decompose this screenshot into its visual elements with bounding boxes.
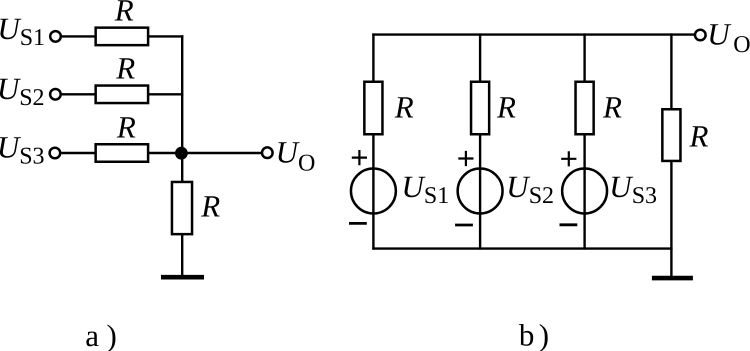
minus US3 bbox=[560, 223, 578, 226]
terminal US1 bbox=[50, 31, 61, 42]
wire R2 to bus bbox=[149, 93, 184, 95]
svg-text:): ) bbox=[539, 318, 549, 351]
svg-text:): ) bbox=[107, 318, 117, 351]
svg-text:UO: UO bbox=[707, 16, 750, 58]
wire shunt R to ground bbox=[181, 235, 183, 276]
terminal US3 bbox=[50, 148, 61, 159]
terminal US2 bbox=[50, 89, 61, 100]
terminal UO (a) bbox=[262, 147, 273, 158]
source US3 bbox=[562, 169, 607, 214]
wire R1 to bus bbox=[149, 35, 184, 37]
svg-text:UO: UO bbox=[276, 135, 316, 177]
resistor R (branch 1) bbox=[364, 82, 382, 135]
wire junction to shunt R bbox=[181, 153, 183, 182]
svg-text:R: R bbox=[114, 0, 134, 27]
svg-text:b: b bbox=[519, 318, 535, 351]
source US2 bbox=[458, 169, 503, 214]
wire US1 to R1 bbox=[62, 35, 96, 37]
plus US1 bbox=[352, 150, 367, 165]
resistor R (branch 2) bbox=[471, 82, 489, 135]
resistor R (row 2) bbox=[96, 86, 148, 104]
wire branch 3 upper bbox=[583, 33, 585, 82]
svg-text:R: R bbox=[115, 50, 135, 85]
resistor R (row 1) bbox=[96, 28, 148, 46]
svg-text:US1: US1 bbox=[0, 11, 45, 51]
wire R3 to output bbox=[149, 152, 263, 154]
junction node bbox=[175, 147, 188, 160]
wire US3 to R3 bbox=[61, 152, 96, 154]
svg-text:R: R bbox=[602, 90, 622, 125]
wire branch 1 lower bbox=[372, 135, 374, 250]
resistor R (branch 4) bbox=[662, 109, 680, 161]
resistor R (row 3) bbox=[96, 144, 148, 162]
source US1 bbox=[351, 169, 396, 214]
svg-text:R: R bbox=[116, 110, 136, 145]
svg-text:US3: US3 bbox=[609, 169, 657, 209]
svg-text:US2: US2 bbox=[0, 71, 45, 111]
wire branch 1 upper bbox=[372, 33, 374, 82]
wire US2 to R2 bbox=[62, 93, 96, 95]
wire branch 4 upper bbox=[670, 33, 672, 109]
svg-text:R: R bbox=[394, 90, 414, 125]
wire top bus (b) bbox=[372, 33, 695, 35]
plus US2 bbox=[458, 151, 473, 166]
svg-text:R: R bbox=[496, 90, 516, 125]
wire branch 2 lower bbox=[479, 135, 481, 250]
ground (a) bbox=[161, 275, 204, 280]
wire branch 4 lower bbox=[670, 161, 672, 277]
resistor R (shunt, a) bbox=[172, 182, 192, 234]
svg-text:US3: US3 bbox=[0, 129, 45, 169]
wire branch 3 lower bbox=[583, 135, 585, 250]
wire bottom bus (b) bbox=[372, 247, 672, 249]
ground (b) bbox=[652, 276, 693, 281]
minus US2 bbox=[455, 224, 473, 227]
svg-text:R: R bbox=[200, 188, 220, 223]
svg-text:US1: US1 bbox=[402, 169, 450, 209]
terminal UO (b) bbox=[695, 30, 706, 41]
wire branch 2 upper bbox=[479, 33, 481, 82]
minus US1 bbox=[349, 222, 367, 225]
svg-text:R: R bbox=[689, 118, 709, 153]
wire bus vertical bbox=[181, 35, 183, 154]
plus US3 bbox=[561, 151, 576, 166]
svg-text:US2: US2 bbox=[506, 169, 554, 209]
svg-text:a: a bbox=[85, 318, 99, 351]
resistor R (branch 3) bbox=[576, 82, 594, 135]
